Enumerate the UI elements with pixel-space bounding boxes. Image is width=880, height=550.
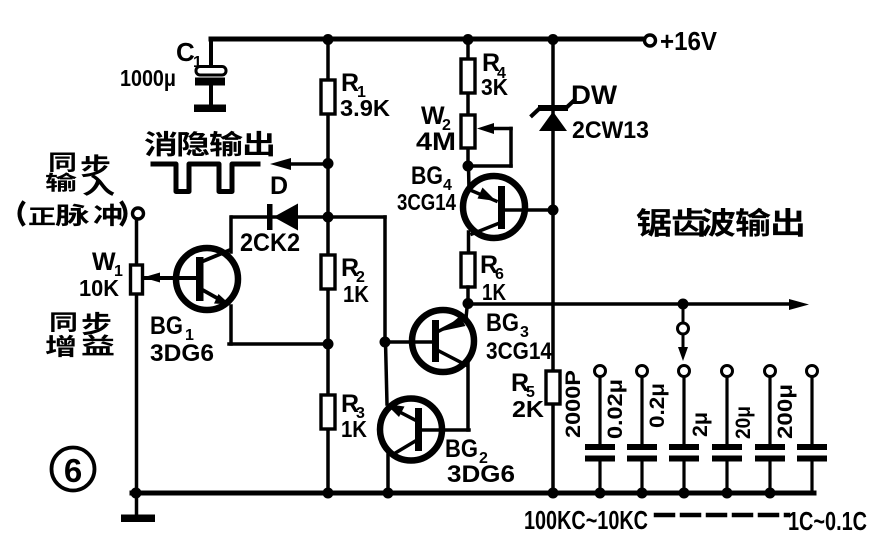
node diode junction bbox=[323, 212, 334, 223]
svg-text:2K: 2K bbox=[512, 396, 544, 422]
svg-text:10K: 10K bbox=[79, 275, 119, 301]
wire BG2 emitter arrow bbox=[394, 409, 417, 421]
wire diode row y=217 bbox=[232, 215, 385, 219]
svg-text:2CK2: 2CK2 bbox=[240, 229, 300, 257]
capacitor C 200μ bbox=[807, 366, 818, 377]
node capacitor 0.02μ ground junction bbox=[637, 488, 648, 499]
svg-text:BG: BG bbox=[150, 312, 183, 340]
label 同步增益 sync gain bbox=[51, 312, 76, 332]
svg-text:1C~0.1C: 1C~0.1C bbox=[788, 506, 867, 536]
zener diode DW 2CW13 bbox=[538, 105, 568, 111]
wire BG4 collector bbox=[472, 224, 497, 234]
node W2 wiper junction bbox=[463, 161, 474, 172]
transistor BG1 bbox=[176, 248, 238, 310]
svg-text:2CW13: 2CW13 bbox=[572, 117, 649, 144]
label 同步输入 sync input bbox=[50, 153, 75, 172]
svg-text:BG: BG bbox=[486, 309, 519, 337]
wire sawtooth output bbox=[468, 302, 796, 306]
wire +16V top rail bbox=[211, 37, 646, 42]
label (正脉冲) positive pulse bbox=[20, 203, 24, 224]
node capacitor 2000P ground junction bbox=[595, 488, 606, 499]
capacitor C 20μ bbox=[765, 366, 776, 377]
svg-text:2000P: 2000P bbox=[562, 370, 585, 438]
wire BG1 base from W1 wiper bbox=[146, 276, 196, 280]
wire BG3 emitter arrow bbox=[439, 317, 466, 331]
transistor BG3 bbox=[412, 310, 474, 372]
wire BG1 emitter bbox=[201, 289, 224, 302]
wire W2 wiper loop bbox=[490, 127, 511, 131]
svg-text:1K: 1K bbox=[343, 281, 369, 307]
resistor R4 bbox=[461, 59, 475, 93]
transistor BG4 bbox=[463, 176, 525, 238]
capacitor C1 bbox=[209, 39, 213, 67]
ground symbol bbox=[135, 493, 139, 516]
node R2 bottom junction bbox=[323, 339, 334, 350]
svg-text:+16V: +16V bbox=[660, 26, 718, 56]
svg-text:1K: 1K bbox=[482, 279, 506, 305]
node W1 ground junction bbox=[131, 488, 142, 499]
svg-text:1: 1 bbox=[193, 54, 202, 71]
svg-text:3CG14: 3CG14 bbox=[397, 189, 456, 215]
node R4 top junction bbox=[463, 34, 474, 45]
node capacitor 20μ ground junction bbox=[765, 488, 776, 499]
node R5 bottom junction bbox=[548, 488, 559, 499]
dashed range line bbox=[656, 513, 788, 518]
svg-text:20μ: 20μ bbox=[732, 406, 755, 439]
wire BG2 emitter riser bbox=[386, 342, 388, 404]
svg-text:1000μ: 1000μ bbox=[120, 65, 176, 91]
waveform blanking pulses bbox=[153, 164, 258, 192]
wire DW column bbox=[551, 39, 555, 493]
node selector junction bbox=[678, 299, 689, 310]
node DW top junction bbox=[548, 34, 559, 45]
label 锯齿波输出 sawtooth output bbox=[637, 208, 671, 237]
terminal +16V supply bbox=[645, 35, 656, 46]
capacitor C 0.2μ bbox=[679, 366, 690, 377]
node R1 top junction bbox=[323, 34, 334, 45]
potentiometer W1 bbox=[131, 265, 143, 294]
node R6 bottom junction bbox=[463, 298, 474, 309]
label 消隐输出 blanking output bbox=[145, 131, 177, 157]
node capacitor 2μ ground junction bbox=[722, 488, 733, 499]
wire BG2 collector bbox=[392, 440, 417, 455]
wire BG1 collector bbox=[201, 250, 230, 262]
capacitor C 2μ bbox=[722, 366, 733, 377]
resistor R5 bbox=[546, 371, 560, 404]
wire bottom ground rail bbox=[132, 491, 814, 496]
wire BG3 collector bbox=[439, 351, 466, 365]
wire BG4 base to DW bbox=[505, 208, 552, 212]
svg-text:3.9K: 3.9K bbox=[340, 95, 390, 121]
switch selector to capacitor bank bbox=[682, 304, 685, 322]
node capacitor 0.2μ ground junction bbox=[679, 488, 690, 499]
node BG4 base junction bbox=[548, 205, 559, 216]
wire diode to BG3 base bbox=[383, 217, 387, 342]
resistor R2 bbox=[321, 255, 335, 289]
node BG2 collector ground junction bbox=[383, 488, 394, 499]
svg-text:BG: BG bbox=[445, 435, 478, 463]
svg-text:4M: 4M bbox=[416, 128, 456, 156]
svg-text:0.02μ: 0.02μ bbox=[604, 379, 627, 439]
resistor R6 bbox=[461, 253, 475, 287]
capacitor C 2000P bbox=[595, 366, 606, 377]
wire R4 column bbox=[466, 39, 470, 166]
wire W1 column bbox=[135, 219, 139, 493]
svg-text:DW: DW bbox=[571, 80, 618, 110]
wire BG2 base bbox=[422, 428, 469, 432]
svg-text:D: D bbox=[270, 172, 288, 200]
figure number 6 bbox=[52, 448, 95, 491]
svg-text:3CG14: 3CG14 bbox=[486, 338, 553, 365]
terminal sync input bbox=[133, 208, 144, 219]
svg-text:100KC~10KC: 100KC~10KC bbox=[524, 505, 648, 535]
wire R1 column bbox=[326, 39, 330, 493]
diode D 2CK2 bbox=[267, 204, 273, 230]
svg-text:W: W bbox=[92, 248, 116, 276]
node BG3 base junction bbox=[380, 337, 391, 348]
svg-text:3DG6: 3DG6 bbox=[447, 461, 515, 488]
svg-text:1K: 1K bbox=[341, 416, 367, 442]
svg-text:3K: 3K bbox=[481, 74, 508, 100]
potentiometer W2 bbox=[461, 115, 475, 148]
svg-text:200μ: 200μ bbox=[774, 384, 797, 439]
wire BG4 emitter arrow bbox=[470, 190, 496, 201]
node R3 bottom junction bbox=[323, 488, 334, 499]
wire blanking output arrow bbox=[282, 162, 328, 166]
resistor R3 bbox=[321, 395, 335, 429]
svg-text:6: 6 bbox=[64, 452, 82, 489]
svg-text:2μ: 2μ bbox=[689, 412, 712, 437]
node blanking output tap bbox=[323, 158, 334, 169]
svg-text:0.2μ: 0.2μ bbox=[646, 383, 669, 428]
svg-text:3DG6: 3DG6 bbox=[150, 340, 214, 367]
transistor BG2 bbox=[380, 399, 442, 461]
resistor R1 bbox=[321, 80, 335, 114]
wire BG4 emitter riser bbox=[467, 166, 471, 190]
capacitor C 0.02μ bbox=[637, 366, 648, 377]
svg-text:BG: BG bbox=[411, 162, 443, 190]
ground bar below C1 bbox=[194, 105, 226, 113]
